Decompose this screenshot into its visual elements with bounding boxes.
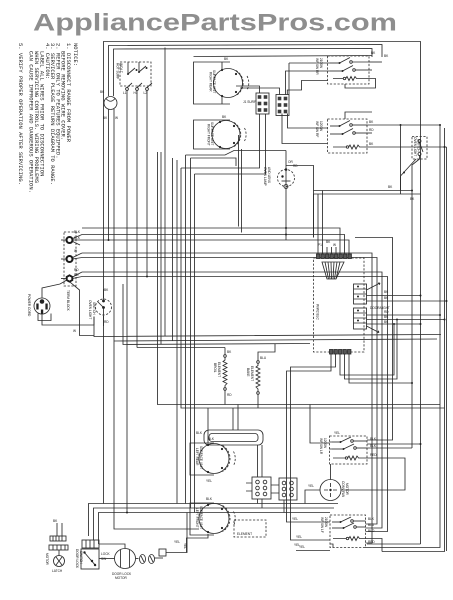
svg-text:YEL: YEL bbox=[296, 535, 302, 539]
receptacle arc LR bbox=[234, 123, 246, 147]
switch 2b bbox=[330, 133, 342, 135]
oven indicator lamp circle bbox=[104, 97, 117, 110]
door lock motor ellipse bbox=[115, 549, 136, 569]
wire bottom bundle 1 bbox=[89, 504, 339, 537]
latch motor small circle bbox=[58, 550, 60, 556]
terminals bbox=[207, 444, 209, 446]
surface unit RR enclosure bbox=[194, 62, 231, 104]
svg-text:SWITCH: SWITCH bbox=[92, 302, 96, 315]
svg-text:YEL: YEL bbox=[206, 479, 212, 483]
wire right up bbox=[166, 513, 187, 553]
svg-text:RD: RD bbox=[74, 268, 79, 272]
surface unit LF enclosure bbox=[190, 503, 214, 535]
svg-text:BLK: BLK bbox=[370, 444, 377, 448]
svg-text:YEL: YEL bbox=[174, 540, 180, 544]
svg-text:HOT SURF: HOT SURF bbox=[116, 63, 120, 79]
bake element bbox=[257, 361, 260, 364]
svg-text:RD: RD bbox=[104, 320, 109, 324]
svg-text:2100W: 2100W bbox=[324, 517, 328, 527]
wires B2 resistor right bbox=[366, 539, 383, 552]
top-left cluster bbox=[100, 62, 199, 529]
svg-text:BLK: BLK bbox=[74, 236, 81, 240]
svg-text:W: W bbox=[333, 243, 336, 247]
svg-text:BLU: BLU bbox=[260, 356, 267, 360]
wire mid vertical 8 bbox=[194, 174, 196, 513]
svg-text:LEFT REAR: LEFT REAR bbox=[195, 448, 199, 466]
power cord plug bbox=[34, 298, 50, 314]
svg-text:LATCH: LATCH bbox=[52, 569, 63, 573]
wire mid horizontal bundle 4 bbox=[137, 347, 225, 349]
svg-text:LEFT FRONT: LEFT FRONT bbox=[195, 508, 199, 528]
wire mid horizontal bundle 2 bbox=[114, 339, 437, 341]
door lock connector rects bbox=[82, 540, 99, 548]
wire mid vertical 4 bbox=[176, 160, 178, 504]
top connector strip bbox=[317, 254, 352, 259]
logo AppliancePartsPros.com bbox=[33, 10, 397, 37]
svg-text:MOTOR: MOTOR bbox=[115, 576, 128, 580]
switch S2 in box bbox=[138, 71, 140, 73]
svg-text:RD: RD bbox=[74, 273, 79, 277]
svg-text:NOTICE:: NOTICE: bbox=[72, 43, 79, 66]
svg-text:IND LT: IND LT bbox=[119, 63, 123, 73]
wires B1 right bbox=[367, 443, 421, 445]
surface unit LF circle bbox=[199, 504, 229, 534]
svg-text:L2: L2 bbox=[144, 91, 148, 95]
wire mid vertical 7 bbox=[190, 158, 192, 508]
svg-text:ELEMENT: ELEMENT bbox=[250, 366, 254, 381]
switch B2a bbox=[332, 521, 340, 523]
svg-text:SW: SW bbox=[101, 557, 106, 561]
wire bottom right closing bbox=[367, 543, 421, 545]
wire terminal bundle 7 bbox=[82, 277, 388, 532]
wires between boxes bbox=[345, 112, 372, 119]
wire top bus L2 bbox=[109, 45, 383, 97]
wire bake top corner bbox=[258, 344, 275, 361]
wire mid vertical 2 bbox=[164, 48, 166, 337]
svg-text:ELEMENT: ELEMENT bbox=[237, 532, 252, 536]
pins up from connector bbox=[317, 194, 319, 254]
terminal L1 bbox=[67, 237, 73, 243]
switch 2a bbox=[330, 125, 339, 127]
svg-text:INF SW RF: INF SW RF bbox=[315, 121, 319, 137]
wires box1 right bbox=[369, 61, 382, 63]
svg-text:RED: RED bbox=[368, 540, 375, 544]
terminals RR bbox=[221, 69, 223, 71]
wire LF down bbox=[187, 534, 209, 553]
svg-text:MOTOR: MOTOR bbox=[345, 483, 349, 496]
wires motor bbox=[99, 558, 115, 560]
connector J2 surf bbox=[276, 95, 289, 116]
wire right vertical BK pair bbox=[365, 125, 440, 548]
wire plug up to terminals bbox=[42, 280, 67, 291]
wire top bus B bbox=[194, 56, 373, 57]
connector B bbox=[49, 545, 68, 550]
wires fan bbox=[305, 490, 320, 504]
wires plunger up bbox=[232, 408, 234, 430]
wire lamp vertical bbox=[285, 151, 287, 241]
oven lamp dashed circle bbox=[278, 170, 295, 187]
wire lightswitch horizontals bbox=[314, 190, 413, 192]
door plunger rounded rect bbox=[204, 430, 263, 445]
svg-text:AND LENS: AND LENS bbox=[267, 167, 271, 183]
wires plunger down bbox=[257, 445, 259, 477]
connector K1 bbox=[252, 477, 271, 499]
resistor in box 2 bbox=[346, 146, 348, 148]
svg-text:LOCK: LOCK bbox=[101, 552, 111, 556]
svg-text:W/W2 ELC: W/W2 ELC bbox=[316, 304, 320, 320]
wire terminal bundle 4 bbox=[82, 253, 372, 543]
svg-text:POWER CORD: POWER CORD bbox=[27, 294, 31, 317]
terminals bbox=[207, 504, 209, 506]
wires connectors down bbox=[181, 114, 260, 168]
surface unit LR circle bbox=[199, 444, 229, 474]
relay block 1 bbox=[354, 284, 367, 304]
inf switch RF dashed box bbox=[328, 119, 368, 153]
wires ELC bottom down to B2 bbox=[287, 354, 332, 522]
svg-text:AppliancePartsPros.com: AppliancePartsPros.com bbox=[33, 10, 397, 37]
switch B1a bbox=[332, 441, 340, 443]
svg-text:YEL: YEL bbox=[299, 545, 305, 549]
switch symbols below bbox=[126, 88, 129, 91]
switch S1 in box bbox=[127, 73, 129, 75]
terminal N bbox=[67, 256, 73, 262]
wires bake bbox=[257, 394, 259, 408]
wires LR up bbox=[207, 408, 209, 444]
svg-text:W: W bbox=[73, 329, 76, 333]
oven light switch bbox=[412, 137, 427, 160]
svg-text:BLK: BLK bbox=[368, 517, 375, 521]
svg-text:SWITCH: SWITCH bbox=[417, 139, 421, 152]
wire mid horizontal bundle 3 bbox=[123, 284, 310, 345]
wire top bus A bbox=[114, 49, 373, 97]
svg-text:BLK: BLK bbox=[196, 431, 203, 435]
receptacle arc bbox=[223, 506, 236, 532]
svg-text:ELEMENT: ELEMENT bbox=[217, 362, 221, 377]
svg-text:J1 SURF: J1 SURF bbox=[243, 100, 256, 104]
wires box2 right bbox=[367, 124, 440, 126]
svg-text:RD: RD bbox=[293, 164, 298, 168]
svg-text:YEL: YEL bbox=[308, 484, 314, 488]
svg-text:L1: L1 bbox=[123, 91, 127, 95]
svg-text:5. VERIFY PROPER OPERATION AFT: 5. VERIFY PROPER OPERATION AFTER SERVICI… bbox=[17, 43, 24, 185]
top-right infinite switch boxes bbox=[314, 51, 447, 551]
surface unit LR enclosure bbox=[190, 443, 214, 475]
wires light switch bbox=[103, 289, 105, 301]
svg-text:RD: RD bbox=[227, 393, 232, 397]
ELC dashed box bbox=[314, 258, 365, 352]
bottom right switch boxes bbox=[294, 405, 422, 552]
wire mid vertical 3 bbox=[172, 158, 174, 341]
top-middle surface units bbox=[181, 57, 330, 240]
terminal block and power cord bbox=[27, 230, 112, 336]
inf switch RR dashed box bbox=[328, 56, 370, 84]
svg-text:DOOR LOCK: DOOR LOCK bbox=[75, 549, 79, 569]
wires relay 1 bbox=[367, 295, 421, 297]
wire terminal bundle 1 bbox=[82, 228, 340, 254]
switch B2b bbox=[332, 527, 343, 529]
hot surface indicator dashed box bbox=[120, 62, 151, 86]
svg-text:W: W bbox=[74, 249, 77, 253]
lamp bulb bbox=[285, 168, 288, 171]
svg-text:W: W bbox=[115, 116, 118, 120]
connector J1 surf bbox=[256, 93, 269, 114]
bottom left door lock bbox=[45, 513, 187, 581]
wire mid vertical 6 bbox=[185, 155, 187, 504]
wire RR top bbox=[221, 62, 223, 70]
resistor B1 bbox=[345, 457, 347, 459]
svg-text:TERM BLOCK: TERM BLOCK bbox=[66, 290, 70, 312]
svg-text:2100W: 2100W bbox=[319, 58, 323, 68]
resistor B2 bbox=[346, 537, 348, 539]
svg-text:OVEN LIGHT: OVEN LIGHT bbox=[413, 137, 417, 156]
svg-text:BLK: BLK bbox=[370, 437, 377, 441]
oven switch box B2 dashed bbox=[330, 515, 366, 548]
svg-text:1200W: 1200W bbox=[319, 121, 323, 131]
wire B1 feed 1 bbox=[355, 238, 393, 441]
arrow relay 1 bbox=[367, 283, 381, 290]
svg-text:CAN CAUSE IMPROPER AND DANGERO: CAN CAUSE IMPROPER AND DANGEROUS OPERATI… bbox=[28, 51, 35, 193]
svg-text:YEL: YEL bbox=[334, 431, 340, 435]
switch ovals bbox=[140, 555, 146, 564]
connector K2 bbox=[279, 478, 297, 500]
wire B2 bottom bbox=[330, 544, 333, 548]
svg-text:OVEN LAMP: OVEN LAMP bbox=[263, 167, 267, 186]
wire terminal bundle 2 bbox=[82, 235, 345, 255]
elements bbox=[196, 344, 275, 478]
wire bottom bundle 3 bbox=[99, 513, 331, 545]
wire plug stem bbox=[42, 314, 94, 325]
wire terminal bundle 6 bbox=[82, 272, 382, 528]
wires broil bbox=[224, 348, 226, 355]
wire mid vertical 1 bbox=[158, 152, 441, 405]
element receptacle box bbox=[234, 520, 266, 537]
receptacle arc RR bbox=[236, 71, 249, 96]
svg-text:BLO: BLO bbox=[368, 529, 375, 533]
svg-text:CONV FAN: CONV FAN bbox=[341, 481, 345, 498]
wire motor up bbox=[99, 544, 126, 549]
wire L2 down to plug bus bbox=[70, 282, 95, 336]
svg-text:RIGHT FRONT: RIGHT FRONT bbox=[207, 124, 211, 146]
svg-text:H1: H1 bbox=[134, 91, 138, 95]
wire top bus L1 bbox=[104, 42, 421, 545]
display ribbon bbox=[322, 262, 344, 279]
wire vertical 400 bbox=[400, 125, 402, 191]
svg-text:SURFACE UNIT: SURFACE UNIT bbox=[199, 506, 203, 529]
svg-text:SURFACE UNIT: SURFACE UNIT bbox=[210, 122, 214, 145]
wire mid horizontal bundle 1 bbox=[94, 317, 441, 337]
svg-text:BLK: BLK bbox=[74, 230, 81, 234]
svg-text:SURFACE UNIT: SURFACE UNIT bbox=[212, 70, 216, 93]
wires from switches down bbox=[126, 90, 128, 512]
wire mid vertical 5 bbox=[181, 168, 445, 408]
wire bottom bundle 2 bbox=[94, 508, 335, 540]
svg-text:RED: RED bbox=[370, 453, 377, 457]
wires LR vertical pair bbox=[238, 135, 240, 227]
relay block 2 bbox=[354, 308, 367, 329]
svg-text:SWITCH: SWITCH bbox=[79, 551, 83, 564]
connector A bbox=[50, 536, 66, 541]
svg-text:INF SW RR: INF SW RR bbox=[315, 58, 319, 75]
wire lamp to right bbox=[286, 166, 314, 191]
svg-text:BLU: BLU bbox=[368, 523, 375, 527]
wires connectors up bbox=[236, 86, 260, 93]
wires K down bbox=[257, 499, 259, 504]
door lock switch box bbox=[81, 549, 99, 569]
svg-text:BROIL: BROIL bbox=[213, 363, 217, 373]
oven switch box B1 dashed bbox=[330, 436, 368, 464]
wire terminal bundle 5 bbox=[82, 258, 377, 525]
wire light switch diagonal bbox=[401, 159, 417, 176]
terminal block dashed outline bbox=[64, 232, 76, 286]
fan motor circle bbox=[320, 480, 341, 501]
wire terminal bundle 3 bbox=[82, 240, 349, 254]
switch 1b bbox=[330, 70, 342, 72]
svg-text:SURFACE UNIT: SURFACE UNIT bbox=[199, 446, 203, 469]
oven light switch dashed circle bbox=[96, 299, 112, 315]
resistor in box 1 bbox=[343, 77, 345, 79]
surface unit LR enclosure bbox=[194, 120, 231, 149]
svg-text:BLK: BLK bbox=[208, 437, 215, 441]
surface unit RR circle bbox=[214, 69, 243, 98]
terminals LR bbox=[219, 121, 221, 123]
wires from lamp bbox=[108, 110, 110, 241]
svg-text:BLK: BLK bbox=[206, 497, 213, 501]
notice text bbox=[17, 43, 79, 193]
terminal L2 bbox=[67, 275, 73, 281]
svg-text:RD: RD bbox=[384, 310, 389, 314]
svg-text:INF SW LF: INF SW LF bbox=[320, 517, 324, 533]
svg-text:RD: RD bbox=[369, 128, 374, 132]
wires relay 2 bbox=[367, 314, 441, 316]
svg-text:P1: P1 bbox=[318, 243, 322, 247]
wire ovals right bbox=[155, 557, 164, 559]
ELC control bbox=[287, 191, 448, 541]
svg-text:OVEN LIGHT: OVEN LIGHT bbox=[88, 300, 92, 319]
junction dots lamp bottom bbox=[285, 227, 287, 229]
svg-text:MOTOR: MOTOR bbox=[45, 553, 49, 566]
receptacle arc bbox=[223, 446, 236, 472]
broil element bbox=[224, 355, 227, 358]
bottom connector strip bbox=[330, 350, 351, 355]
surface unit LR circle bbox=[212, 121, 240, 149]
small comp bbox=[159, 549, 166, 556]
wires B1 left bbox=[330, 442, 333, 449]
arrow relay 2 bbox=[367, 326, 380, 333]
switch B1b bbox=[332, 448, 343, 450]
switch 1a bbox=[330, 62, 339, 64]
svg-text:INF SW LR: INF SW LR bbox=[319, 438, 323, 455]
wires stubs up bbox=[57, 523, 62, 536]
svg-text:BAKE: BAKE bbox=[246, 368, 250, 377]
frame and buses bbox=[82, 42, 445, 552]
svg-text:YEL: YEL bbox=[292, 517, 298, 521]
bottom mid surface units bbox=[174, 408, 349, 553]
svg-text:RIGHT REAR: RIGHT REAR bbox=[209, 72, 213, 92]
